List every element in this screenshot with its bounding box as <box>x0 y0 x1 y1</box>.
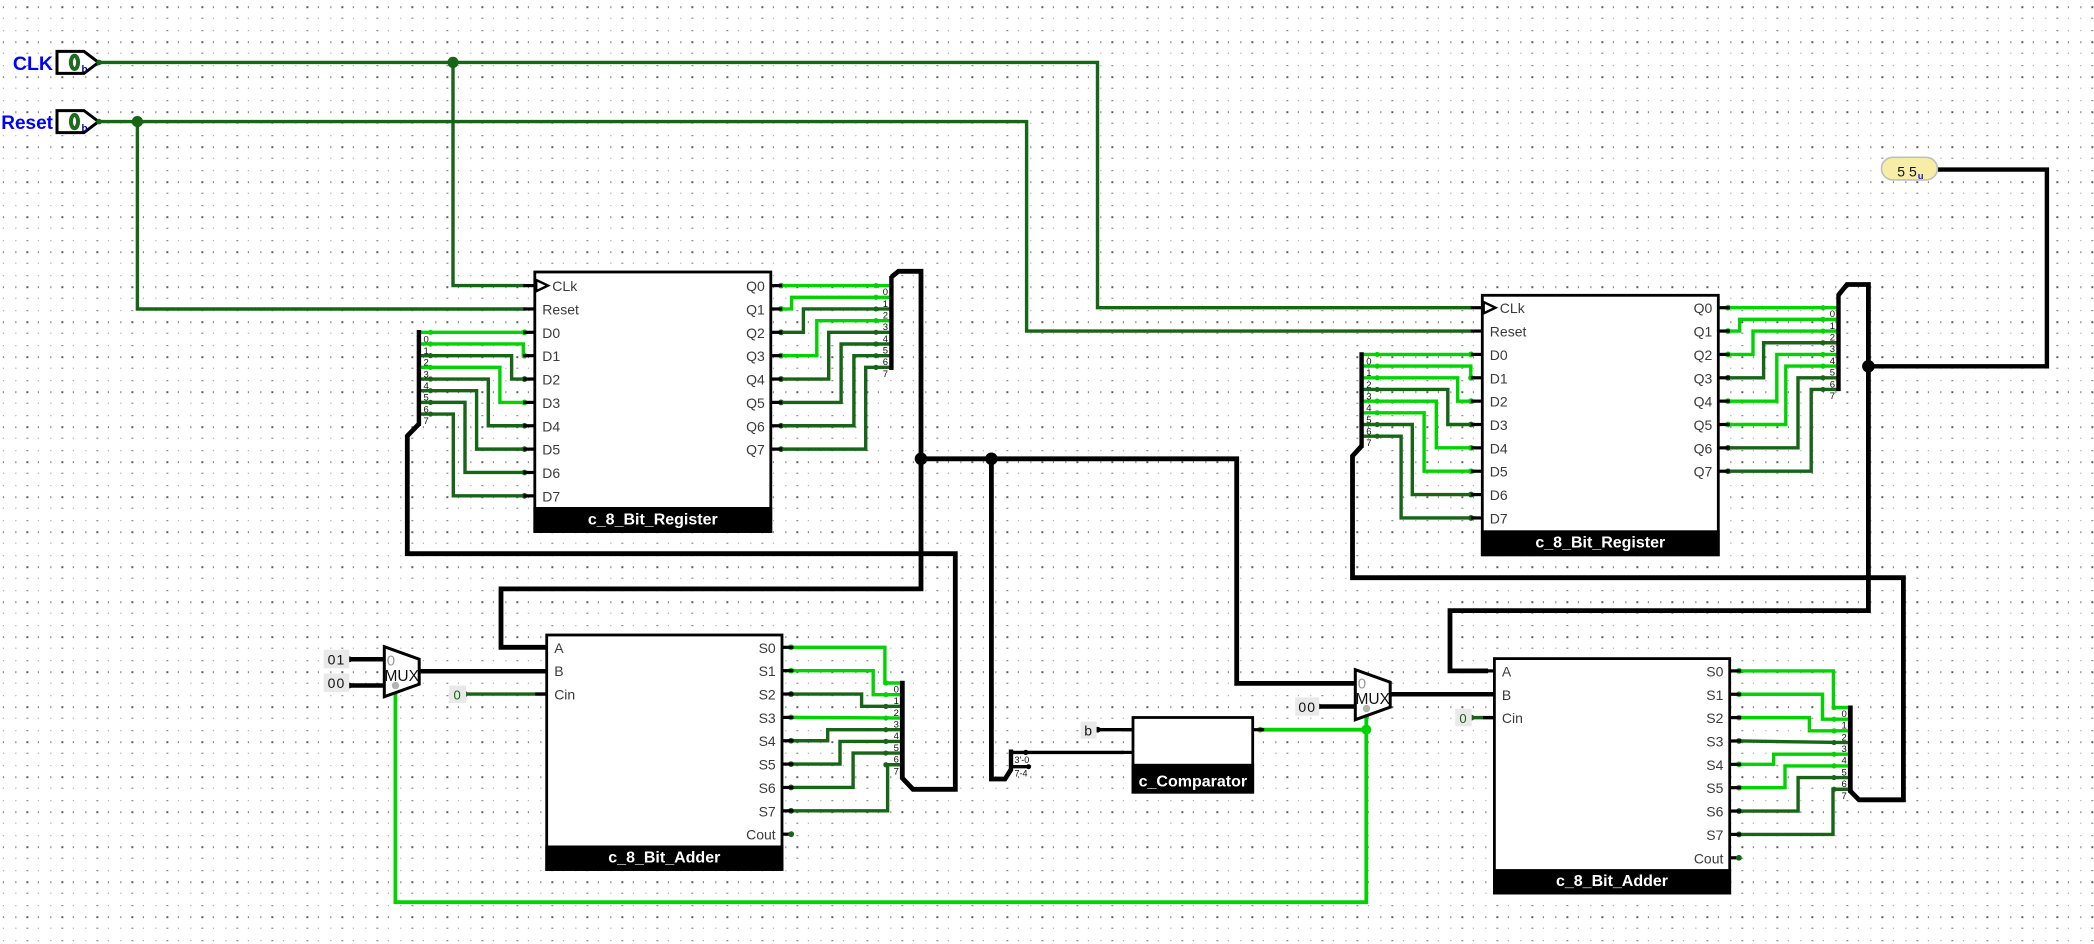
svg-text:4: 4 <box>1830 356 1835 367</box>
bus wire: register 2 Q bus to adder 2 A input <box>1450 285 1868 671</box>
svg-text:Q4: Q4 <box>1694 394 1713 410</box>
bus splitter taps to register 1 D0-D7 <box>421 329 527 498</box>
svg-text:D3: D3 <box>1490 417 1508 433</box>
svg-text:CLK: CLK <box>13 53 53 75</box>
wire: adder 2 Cin constant 0 <box>1469 715 1497 721</box>
bus ripper bar at comparator input <box>1011 750 1124 772</box>
junction: branch to comparator <box>985 453 998 466</box>
wire: constant 00 to mux 2 <box>1316 704 1357 710</box>
svg-text:0: 0 <box>894 685 899 696</box>
svg-text:0: 0 <box>1842 709 1847 720</box>
svg-text:2: 2 <box>1830 333 1835 344</box>
svg-text:5: 5 <box>894 743 899 754</box>
constant label 0 at adder 2 Cin <box>1455 709 1472 727</box>
bus wire: output label 55 to register 2 Q bus <box>1868 170 2047 367</box>
svg-text:D5: D5 <box>1490 464 1508 480</box>
svg-text:S2: S2 <box>759 687 776 703</box>
svg-text:D4: D4 <box>542 418 560 434</box>
bus wire: adder 1 sum bus to register 1 D ripper <box>407 424 955 789</box>
svg-text:Q2: Q2 <box>1694 347 1713 363</box>
wire: mux 2 output to adder 2 B input <box>1390 692 1497 697</box>
svg-text:CLk: CLk <box>552 278 578 294</box>
svg-text:A: A <box>554 640 564 656</box>
svg-text:0: 0 <box>453 687 461 702</box>
svg-text:4: 4 <box>883 334 888 345</box>
svg-text:c_8_Bit_Register: c_8_Bit_Register <box>588 511 718 528</box>
svg-text:S4: S4 <box>1706 757 1723 773</box>
input pin CLK <box>13 51 102 75</box>
multiplexer MUX2 <box>1355 670 1390 720</box>
bus wire: register 1 Q bus to adder 1 A input <box>501 271 921 647</box>
svg-text:6: 6 <box>894 755 899 766</box>
bus ripper bar at register 2 D inputs <box>1362 352 1372 449</box>
svg-text:u: u <box>1918 171 1924 182</box>
svg-text:B: B <box>554 663 563 679</box>
svg-text:Q7: Q7 <box>746 442 765 458</box>
svg-text:Reset: Reset <box>1490 324 1527 340</box>
bus wire: branch to mux 2 input <box>921 459 1357 684</box>
svg-text:S5: S5 <box>759 757 776 773</box>
svg-text:5: 5 <box>1842 767 1847 778</box>
svg-text:4: 4 <box>1842 756 1847 767</box>
svg-text:1: 1 <box>883 299 888 310</box>
svg-text:3: 3 <box>1842 744 1847 755</box>
bus ripper bar at adder 1 sum outputs <box>894 681 903 778</box>
svg-text:Q0: Q0 <box>1694 300 1713 316</box>
junction: Q2 bus to output label <box>1862 360 1875 373</box>
register U1 c_8_Bit_Register <box>523 272 782 533</box>
svg-text:7: 7 <box>424 416 429 427</box>
svg-text:1: 1 <box>424 346 429 357</box>
svg-text:Q5: Q5 <box>746 395 765 411</box>
svg-text:0: 0 <box>1366 356 1371 367</box>
svg-text:D1: D1 <box>1490 370 1508 386</box>
wire Reset net: input pin to registers <box>99 122 1472 332</box>
svg-text:c_8_Bit_Register: c_8_Bit_Register <box>1535 535 1665 552</box>
svg-text:Reset: Reset <box>1 113 53 134</box>
comparator U5 c_Comparator <box>1122 718 1265 794</box>
svg-text:Cin: Cin <box>1502 710 1523 726</box>
svg-text:c_8_Bit_Adder: c_8_Bit_Adder <box>1556 873 1668 890</box>
svg-text:Q3: Q3 <box>746 348 765 364</box>
adder 2 S0-S7 wires to bus ripper <box>1736 668 1848 837</box>
svg-text:Q1: Q1 <box>746 301 765 317</box>
svg-text:S1: S1 <box>1706 687 1723 703</box>
svg-text:S6: S6 <box>1706 804 1723 820</box>
svg-text:2: 2 <box>883 310 888 321</box>
svg-text:D4: D4 <box>1490 440 1508 456</box>
svg-text:c_Comparator: c_Comparator <box>1139 773 1247 790</box>
svg-text:1: 1 <box>1842 721 1847 732</box>
svg-text:4: 4 <box>1366 403 1371 414</box>
register 1 Q0-Q7 wires to bus ripper <box>778 283 889 452</box>
wire: mux 1 output to adder 1 B input <box>419 669 550 674</box>
svg-text:7: 7 <box>1842 791 1847 802</box>
svg-text:Q3: Q3 <box>1694 370 1713 386</box>
wire: constant 01 to mux 1 <box>347 656 387 662</box>
svg-text:D1: D1 <box>542 348 560 364</box>
svg-text:b: b <box>1084 722 1093 738</box>
bus wire: branch down to comparator ripper <box>991 459 1011 779</box>
svg-text:0: 0 <box>1358 676 1366 693</box>
svg-text:5: 5 <box>1830 368 1835 379</box>
constant label 0 at adder 1 Cin <box>449 686 466 704</box>
svg-text:5 5: 5 5 <box>1897 163 1917 179</box>
bus splitter taps to register 2 D0-D7 <box>1364 352 1475 521</box>
constant label 00 at mux 1 <box>324 674 350 693</box>
svg-text:Q6: Q6 <box>746 418 765 434</box>
svg-text:B: B <box>1502 687 1511 703</box>
svg-text:4: 4 <box>894 731 899 742</box>
register 2 Q0-Q7 wires to bus ripper <box>1725 305 1836 474</box>
value label 55 unsigned <box>1882 157 1938 182</box>
svg-text:D7: D7 <box>1490 510 1508 526</box>
svg-text:S7: S7 <box>1706 827 1723 843</box>
svg-text:6: 6 <box>1842 779 1847 790</box>
svg-text:S3: S3 <box>759 710 776 726</box>
svg-text:S2: S2 <box>1706 710 1723 726</box>
svg-text:0: 0 <box>1830 309 1835 320</box>
svg-text:5: 5 <box>1366 415 1371 426</box>
svg-text:7: 7 <box>1830 391 1835 402</box>
constant label 01 <box>324 650 350 669</box>
svg-text:D3: D3 <box>542 395 560 411</box>
svg-text:Q5: Q5 <box>1694 417 1713 433</box>
svg-text:Cout: Cout <box>1694 850 1724 866</box>
svg-text:3: 3 <box>424 369 429 380</box>
adder 1 S0-S7 wires to bus ripper <box>788 644 900 813</box>
bus ripper bar at register 1 Q outputs <box>883 276 892 380</box>
svg-text:0: 0 <box>387 653 395 670</box>
svg-text:1: 1 <box>894 696 899 707</box>
svg-text:D6: D6 <box>542 465 560 481</box>
svg-text:5: 5 <box>424 393 429 404</box>
svg-text:Q2: Q2 <box>746 325 765 341</box>
svg-text:D2: D2 <box>542 372 560 388</box>
register U2 c_8_Bit_Register <box>1471 295 1730 556</box>
svg-text:Reset: Reset <box>542 301 579 317</box>
adder U3 c_8_Bit_Adder <box>535 635 794 871</box>
svg-text:S0: S0 <box>759 640 776 656</box>
svg-text:4: 4 <box>424 381 429 392</box>
svg-text:6: 6 <box>883 357 888 368</box>
svg-text:S1: S1 <box>759 663 776 679</box>
svg-text:01: 01 <box>328 651 346 667</box>
svg-text:6: 6 <box>424 404 429 415</box>
wire CLK net: input pin to registers <box>99 62 1472 307</box>
svg-text:2: 2 <box>424 358 429 369</box>
svg-text:3: 3 <box>1366 391 1371 402</box>
svg-text:0: 0 <box>424 334 429 345</box>
junction: Q bus to comparator/mux branch <box>915 453 928 466</box>
junction: feedback loop at mux 2 select <box>1361 725 1371 735</box>
junction on CLK wire <box>447 57 458 68</box>
svg-text:D5: D5 <box>542 442 560 458</box>
svg-text:7: 7 <box>883 369 888 380</box>
svg-text:D7: D7 <box>542 488 560 504</box>
svg-text:7: 7 <box>1366 438 1371 449</box>
svg-text:Q6: Q6 <box>1694 440 1713 456</box>
ripper range label 3-0 <box>1015 755 1030 765</box>
wire: adder 1 Cin constant 0 <box>462 691 550 697</box>
bus wire: adder 2 sum bus to register 2 D ripper <box>1353 446 1904 800</box>
svg-text:Q4: Q4 <box>746 372 765 388</box>
svg-text:00: 00 <box>328 675 346 691</box>
svg-text:6: 6 <box>1366 427 1371 438</box>
svg-text:b: b <box>82 124 88 135</box>
svg-text:CLk: CLk <box>1500 300 1526 316</box>
svg-text:6: 6 <box>1830 379 1835 390</box>
svg-text:3'-0: 3'-0 <box>1015 755 1030 765</box>
svg-text:5: 5 <box>883 346 888 357</box>
input pin Reset <box>1 111 102 135</box>
svg-text:7-4: 7-4 <box>1015 769 1028 779</box>
bus ripper bar at register 2 Q outputs <box>1830 294 1839 402</box>
svg-text:2: 2 <box>894 708 899 719</box>
svg-text:0: 0 <box>883 287 888 298</box>
svg-text:MUX: MUX <box>1356 691 1391 708</box>
svg-text:A: A <box>1502 663 1512 679</box>
svg-text:1: 1 <box>1830 321 1835 332</box>
svg-text:3: 3 <box>883 322 888 333</box>
bus ripper bar at adder 2 sum outputs <box>1842 706 1851 802</box>
svg-text:D6: D6 <box>1490 487 1508 503</box>
svg-text:Q0: Q0 <box>746 278 765 294</box>
ripper range label 7-4 <box>1015 769 1028 779</box>
svg-text:2: 2 <box>1366 380 1371 391</box>
svg-text:S0: S0 <box>1706 663 1723 679</box>
adder U4 c_8_Bit_Adder <box>1483 659 1742 895</box>
wire: label b to comparator <box>1095 727 1136 733</box>
svg-text:Cout: Cout <box>746 827 776 843</box>
junction on Reset wire <box>132 116 143 127</box>
svg-text:7: 7 <box>894 766 899 777</box>
constant label 00 at mux 2 <box>1295 697 1319 716</box>
svg-text:S5: S5 <box>1706 780 1723 796</box>
svg-text:3: 3 <box>894 720 899 731</box>
svg-text:S4: S4 <box>759 733 776 749</box>
svg-text:Q7: Q7 <box>1694 464 1713 480</box>
svg-text:3: 3 <box>1830 344 1835 355</box>
wire: comparator output feedback loop to mux selects <box>393 688 1369 902</box>
svg-text:D0: D0 <box>542 325 560 341</box>
net label b at comparator <box>1081 722 1097 739</box>
svg-text:D2: D2 <box>1490 394 1508 410</box>
svg-text:S6: S6 <box>759 780 776 796</box>
svg-text:b: b <box>82 64 88 75</box>
svg-text:Cin: Cin <box>554 687 575 703</box>
svg-text:S3: S3 <box>1706 733 1723 749</box>
svg-text:00: 00 <box>1298 699 1316 715</box>
svg-text:D0: D0 <box>1490 347 1508 363</box>
bus ripper bar at register 1 D inputs <box>419 330 429 427</box>
svg-text:c_8_Bit_Adder: c_8_Bit_Adder <box>608 850 720 867</box>
multiplexer MUX1 <box>384 647 419 697</box>
svg-text:2: 2 <box>1842 732 1847 743</box>
svg-text:Q1: Q1 <box>1694 324 1713 340</box>
svg-text:0: 0 <box>1459 711 1467 726</box>
svg-text:1: 1 <box>1366 368 1371 379</box>
svg-text:MUX: MUX <box>385 668 420 685</box>
svg-text:S7: S7 <box>759 803 776 819</box>
wire: constant 00 to mux 1 <box>347 683 387 689</box>
